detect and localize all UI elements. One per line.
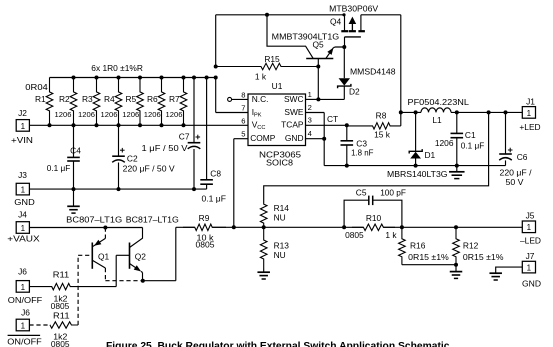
svg-text:D2: D2 [349, 86, 360, 96]
svg-text:TCAP: TCAP [281, 120, 304, 130]
svg-text:50 V: 50 V [506, 177, 524, 187]
svg-text:1206: 1206 [166, 110, 183, 119]
svg-text:1206: 1206 [122, 110, 139, 119]
svg-text:C2: C2 [127, 153, 138, 163]
svg-text:R4: R4 [104, 94, 115, 104]
svg-text:0.1 μF: 0.1 μF [202, 193, 227, 203]
svg-text:SOIC8: SOIC8 [266, 158, 293, 168]
svg-text:GND: GND [14, 197, 35, 207]
svg-text:R10: R10 [366, 213, 382, 223]
svg-text:C5: C5 [356, 188, 367, 198]
svg-text:L1: L1 [432, 115, 442, 125]
svg-text:R15: R15 [264, 54, 280, 64]
svg-text:J5: J5 [526, 211, 535, 221]
svg-text:N.C.: N.C. [252, 94, 269, 104]
svg-text:2: 2 [308, 103, 312, 112]
svg-text:1: 1 [21, 321, 26, 330]
svg-text:R12: R12 [463, 241, 479, 251]
svg-text:0805: 0805 [51, 339, 70, 347]
svg-text:R11: R11 [53, 270, 70, 280]
svg-text:0805: 0805 [345, 230, 364, 240]
svg-text:R1: R1 [35, 94, 46, 104]
svg-text:J4: J4 [18, 209, 27, 219]
svg-text:+LED: +LED [519, 122, 540, 132]
svg-text:1.8 nF: 1.8 nF [351, 148, 373, 158]
svg-text:COMP: COMP [250, 133, 276, 143]
svg-text:BC807–LT1G: BC807–LT1G [66, 214, 122, 224]
svg-text:1 k: 1 k [385, 230, 397, 240]
svg-text:1206: 1206 [78, 110, 95, 119]
svg-text:1: 1 [527, 109, 532, 118]
svg-text:1: 1 [527, 264, 532, 273]
svg-text:NU: NU [274, 213, 286, 223]
svg-text:0.1 μF: 0.1 μF [461, 141, 485, 151]
svg-text:J1: J1 [526, 97, 535, 107]
svg-text:R9: R9 [199, 213, 210, 223]
svg-text:220 μF /: 220 μF / [500, 168, 533, 178]
svg-text:1 μF / 50 V: 1 μF / 50 V [142, 143, 188, 153]
svg-text:D1: D1 [425, 150, 436, 160]
svg-text:C4: C4 [70, 145, 81, 155]
svg-text:C6: C6 [517, 152, 528, 162]
svg-text:1: 1 [21, 122, 26, 131]
svg-text:NU: NU [274, 250, 286, 260]
svg-text:GND: GND [522, 278, 541, 288]
svg-text:8: 8 [241, 90, 245, 99]
svg-text:R11: R11 [53, 311, 70, 321]
svg-text:7: 7 [241, 104, 245, 113]
svg-text:MTB30P06V: MTB30P06V [329, 4, 378, 14]
svg-text:1: 1 [21, 283, 26, 292]
svg-text:J6: J6 [21, 308, 30, 318]
svg-text:C1: C1 [465, 130, 476, 140]
svg-text:J3: J3 [18, 170, 27, 180]
svg-text:BC817–LT1G: BC817–LT1G [126, 214, 179, 224]
svg-text:ON/OFF: ON/OFF [8, 295, 43, 305]
svg-text:1: 1 [527, 223, 532, 232]
svg-text:1: 1 [21, 224, 26, 233]
svg-text:1206: 1206 [144, 110, 161, 119]
svg-text:1 k: 1 k [255, 72, 267, 82]
svg-text:SWC: SWC [284, 94, 304, 104]
svg-text:100 pF: 100 pF [380, 188, 406, 198]
svg-text:+VAUX: +VAUX [7, 234, 40, 244]
svg-text:1: 1 [308, 90, 312, 99]
svg-text:3: 3 [308, 116, 312, 125]
svg-text:Q1: Q1 [98, 252, 110, 262]
svg-text:0805: 0805 [196, 240, 215, 250]
svg-text:1206: 1206 [55, 110, 72, 119]
svg-text:C8: C8 [210, 169, 221, 179]
svg-text:MMSD4148: MMSD4148 [350, 66, 396, 76]
svg-text:R8: R8 [376, 110, 387, 120]
svg-text:J6: J6 [18, 266, 27, 276]
svg-text:1206: 1206 [435, 138, 454, 148]
svg-text:5: 5 [241, 130, 245, 139]
svg-text:0.1 μF: 0.1 μF [47, 163, 71, 173]
svg-text:R3: R3 [82, 94, 93, 104]
svg-text:6: 6 [241, 116, 245, 125]
svg-text:PF0504.223NL: PF0504.223NL [408, 97, 470, 107]
svg-text:ON/OFF: ON/OFF [7, 336, 42, 346]
svg-text:0R15 ±1%: 0R15 ±1% [408, 252, 449, 262]
svg-text:1: 1 [21, 186, 26, 195]
svg-text:15 k: 15 k [374, 129, 391, 139]
svg-text:1206: 1206 [101, 110, 118, 119]
svg-text:J7: J7 [526, 251, 535, 261]
svg-text:220 μF / 50 V: 220 μF / 50 V [123, 164, 175, 174]
svg-text:SWE: SWE [284, 107, 303, 117]
svg-text:U1: U1 [272, 81, 283, 91]
svg-text:+VIN: +VIN [11, 135, 33, 145]
svg-text:Q2: Q2 [135, 252, 147, 262]
svg-text:MBRS140LT3G: MBRS140LT3G [387, 169, 448, 179]
svg-text:0R04: 0R04 [25, 82, 48, 92]
svg-text:C7: C7 [179, 131, 190, 141]
svg-text:4: 4 [308, 129, 312, 138]
svg-text:0R15 ±1%: 0R15 ±1% [463, 252, 504, 262]
svg-text:6x 1R0 ±1%R: 6x 1R0 ±1%R [91, 63, 143, 73]
svg-text:J2: J2 [18, 108, 27, 118]
svg-text:MMBT3904LT1G: MMBT3904LT1G [272, 32, 340, 42]
svg-text:Figure 25. Buck Regulator with: Figure 25. Buck Regulator with External … [106, 341, 450, 347]
svg-text:Q4: Q4 [330, 17, 342, 27]
svg-text:R2: R2 [59, 94, 70, 104]
svg-text:CT: CT [327, 114, 338, 124]
svg-text:GND: GND [285, 133, 304, 143]
svg-text:R6: R6 [147, 94, 158, 104]
svg-text:–LED: –LED [520, 236, 541, 246]
svg-text:0805: 0805 [51, 301, 70, 311]
svg-text:R16: R16 [410, 241, 426, 251]
svg-text:R5: R5 [125, 94, 136, 104]
svg-text:R7: R7 [169, 94, 180, 104]
